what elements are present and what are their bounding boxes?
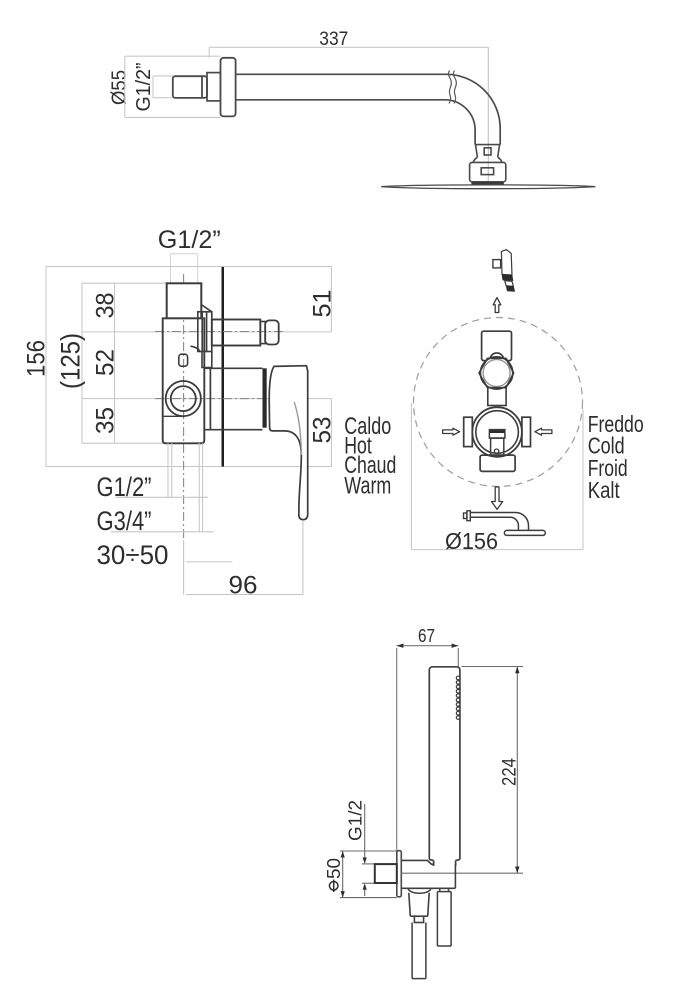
- hose cone nut: [409, 893, 429, 923]
- head dark base band: [471, 182, 503, 185]
- label G1/2 (rotated): [346, 800, 366, 841]
- label 96: [229, 572, 258, 600]
- label Ø50 (rotated): [324, 858, 344, 892]
- bottom port extension lines: [111, 443, 232, 562]
- holder lower tube: [437, 888, 451, 946]
- body slot detail: [179, 354, 188, 366]
- dimension Ø50: [340, 851, 397, 898]
- dimension bracket G1/2": [153, 76, 174, 98]
- svg-text:52: 52: [92, 349, 120, 376]
- svg-text:51: 51: [309, 290, 337, 318]
- label 51 (rotated): [309, 290, 337, 318]
- dimension 337 line: [209, 47, 489, 57]
- svg-text:224: 224: [500, 758, 521, 786]
- pipe break squiggle: [448, 71, 456, 104]
- svg-text:53: 53: [309, 417, 337, 444]
- dimension grid 156/38/52/35/51/53: [46, 267, 331, 467]
- elbow centerline: [401, 872, 523, 874]
- svg-text:G1/2”: G1/2”: [133, 63, 155, 112]
- nut circles: [480, 357, 512, 389]
- outlet horizontal centerline: [155, 331, 283, 333]
- dimension 67: [397, 646, 459, 851]
- valve hex nut: [479, 358, 514, 387]
- valve top pipe: [482, 331, 512, 360]
- head ball-joint connector: [473, 145, 502, 163]
- svg-text:96: 96: [229, 572, 258, 600]
- label 156 (rotated): [22, 340, 50, 377]
- label 35 (rotated): [92, 407, 120, 434]
- svg-text:G3/4”: G3/4”: [97, 506, 152, 536]
- label 38 (rotated): [92, 293, 120, 319]
- svg-text:(125): (125): [56, 333, 86, 389]
- dimension 224: [462, 667, 524, 874]
- outlet tube to arm: [212, 320, 279, 346]
- label (125) (rotated): [56, 333, 86, 389]
- arrow left (cold inlet): [443, 428, 460, 435]
- label Caldo Hot Chaud Warm: [344, 413, 396, 500]
- label 67: [418, 626, 435, 646]
- shower head pictogram: [464, 511, 546, 536]
- svg-text:Warm: Warm: [344, 473, 391, 500]
- svg-text:35: 35: [92, 407, 120, 434]
- arrow down (to hand shower): [492, 487, 503, 509]
- mixer body: [163, 318, 205, 443]
- label 52 (rotated): [92, 349, 120, 376]
- svg-text:Ø55: Ø55: [109, 70, 131, 105]
- elbow wall flange: [397, 851, 402, 897]
- valve bottom pipe: [480, 455, 515, 471]
- elbow body: [401, 860, 455, 888]
- arm threaded stub: [173, 76, 207, 98]
- cartridge big circles: [472, 407, 522, 457]
- label 30÷50: [97, 540, 169, 570]
- rain head disc: [381, 185, 595, 189]
- svg-text:67: 67: [418, 626, 435, 646]
- svg-text:50: 50: [324, 858, 344, 879]
- body port ledge: [163, 415, 184, 417]
- mixer vertical centerline: [183, 274, 185, 595]
- svg-text:30÷50: 30÷50: [97, 540, 169, 570]
- label G1/2" left: [97, 472, 152, 502]
- elbow swivel dome: [408, 888, 431, 893]
- label Ø55 (rotated): [109, 70, 131, 105]
- dimension 337 label: [319, 29, 348, 50]
- valve dome top: [490, 353, 504, 358]
- svg-text:G1/2: G1/2: [346, 800, 366, 841]
- dashed circle Ø156: [414, 318, 583, 487]
- valve side ports: [464, 417, 531, 446]
- label G1/2" top: [158, 226, 221, 254]
- wand spray dots: [456, 676, 460, 719]
- arm wall flange: [221, 58, 236, 117]
- svg-text:38: 38: [92, 293, 120, 319]
- hand shower wand: [429, 667, 460, 866]
- svg-text:Kalt: Kalt: [588, 477, 620, 503]
- mixer handle lever: [269, 366, 308, 520]
- G1/2 extension lines: [171, 254, 198, 283]
- label 224 (rotated): [500, 758, 521, 786]
- wall section line: [222, 267, 225, 467]
- hand shower pictogram: [493, 250, 515, 292]
- valve neck: [488, 388, 506, 406]
- arrow right (cold inlet): [535, 428, 552, 435]
- svg-text:G1/2”: G1/2”: [158, 226, 221, 254]
- dimension bracket Ø55: [125, 56, 221, 117]
- shower arm tube: [236, 74, 501, 144]
- svg-text:Ø156: Ø156: [445, 528, 498, 554]
- centerline of head / 337 right extension: [487, 47, 489, 185]
- svg-text:156: 156: [22, 340, 50, 377]
- shower hose: [412, 923, 426, 979]
- arrow up (to shower): [493, 298, 501, 313]
- Ø156 dimension lines: [411, 403, 583, 550]
- dimension 96: [186, 521, 303, 595]
- dimension G1/2: [362, 804, 375, 896]
- cartridge stem: [489, 430, 505, 456]
- label Ø156: [445, 528, 498, 554]
- handle escutcheon cylinder: [204, 368, 262, 429]
- label 53 (rotated): [309, 417, 337, 444]
- mixer top inlet pipe: [167, 283, 202, 318]
- svg-text:G1/2”: G1/2”: [97, 472, 152, 502]
- elbow supply stub: [375, 864, 397, 883]
- label Freddo Cold Froid Kalt: [588, 411, 644, 503]
- label G3/4" left: [97, 506, 152, 536]
- label G1/2" (rotated): [133, 63, 155, 112]
- escutcheon dark ring: [263, 368, 267, 427]
- cartridge circle: [166, 381, 201, 416]
- arm collar: [207, 73, 221, 101]
- cartridge horizontal centerline: [155, 398, 272, 400]
- head ball housing: [470, 162, 506, 181]
- outlet collar plate: [191, 305, 212, 368]
